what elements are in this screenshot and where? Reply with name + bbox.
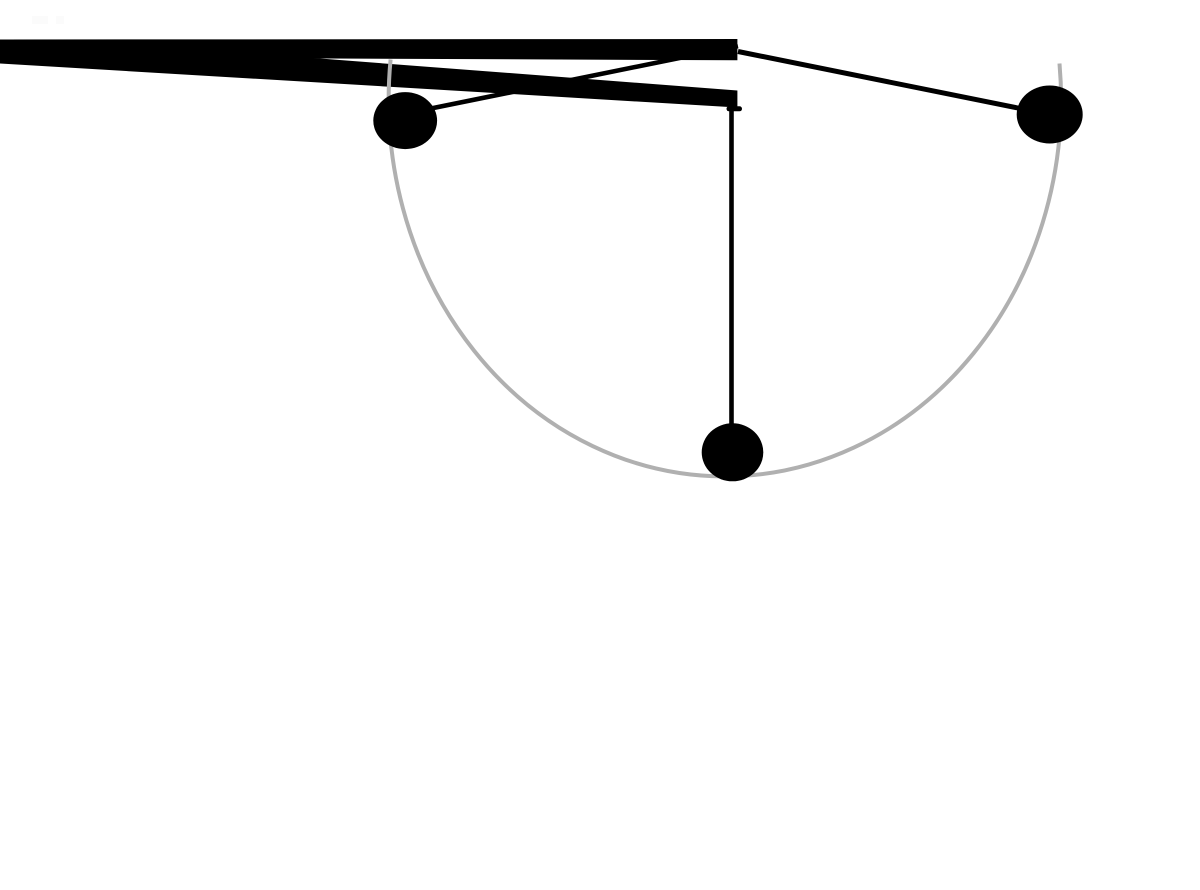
vertical string xyxy=(729,107,734,430)
smudge top-left xyxy=(32,16,48,24)
lower plank (tilted bar) xyxy=(0,40,737,108)
bottom bob xyxy=(702,423,764,481)
upper plank (horizontal support bar) xyxy=(0,39,737,60)
pivot tick xyxy=(729,106,740,111)
right bob xyxy=(1017,86,1083,144)
circular path arc xyxy=(389,60,1061,477)
string to left bob xyxy=(405,46,738,114)
left bob xyxy=(373,92,437,149)
string to right bob xyxy=(738,52,1050,115)
